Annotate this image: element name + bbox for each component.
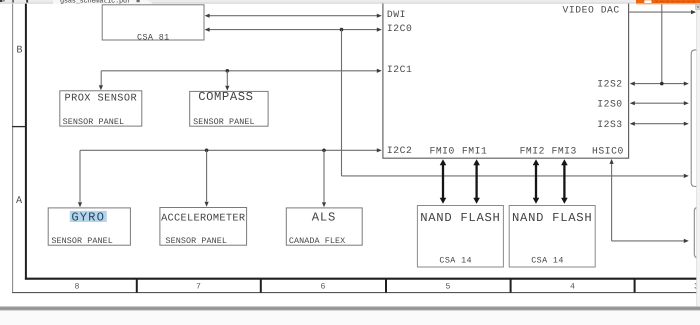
block ACCELEROMETER: [160, 208, 247, 246]
junction on I2C2 wire above ACCELEROMETER: [205, 149, 209, 153]
wire I2C0 branch vertical down: [341, 30, 343, 176]
wire I2C2 horizontal into SoC: [80, 149, 380, 151]
svg-text:I2S3: I2S3: [597, 119, 622, 130]
FMI0 bus double arrow: [442, 163, 444, 200]
svg-text:CSA 14: CSA 14: [531, 256, 564, 266]
svg-text:PROX SENSOR: PROX SENSOR: [65, 92, 138, 104]
FMI2 bus double arrow: [535, 163, 537, 200]
svg-text:HSIC0: HSIC0: [592, 145, 624, 156]
SoC main block U1 (cut off at top): [383, 0, 629, 158]
browser tab bar strip (cut off at top): [0, 0, 700, 3]
sheet frame bottom outer line: [12, 292, 700, 294]
FMI1 bus double arrow: [475, 163, 477, 200]
svg-text:FMI2: FMI2: [520, 145, 545, 156]
column dividers bottom margin: [136, 278, 138, 293]
block NAND FLASH 1: [417, 206, 503, 268]
orange tab strip top right: [636, 0, 700, 3]
svg-text:I2C1: I2C1: [387, 64, 412, 75]
svg-text:VIDEO DAC: VIDEO DAC: [563, 4, 620, 15]
svg-text:NAND FLASH: NAND FLASH: [512, 211, 592, 225]
block COMPASS: [190, 91, 268, 126]
wire I2C0 branch horizontal to right connector: [342, 175, 687, 177]
svg-text:8: 8: [75, 282, 80, 291]
wire I2C0 bus CSA81 to SoC (double arrow): [206, 29, 380, 31]
svg-text:SENSOR PANEL: SENSOR PANEL: [51, 236, 113, 246]
wire I2C1 horizontal into SoC: [101, 70, 380, 72]
wire I2C2 drop to ACCELEROMETER: [206, 150, 208, 201]
junction on I2C2 wire above ALS: [322, 149, 326, 153]
svg-text:ALS: ALS: [312, 211, 336, 225]
wire I2C2 drop to ALS: [323, 150, 325, 202]
sheet frame row divider tick: [12, 126, 26, 128]
wire I2C1 drop to COMPASS: [226, 71, 228, 86]
wire VIDEO DAC output to right: [629, 11, 693, 13]
partial toolbar marks top-left: [0, 0, 2, 2]
active tab (partial): [53, 0, 153, 4]
wire I2C1 drop to PROX SENSOR: [100, 71, 102, 85]
svg-text:COMPASS: COMPASS: [198, 90, 253, 104]
svg-text:SENSOR PANEL: SENSOR PANEL: [193, 117, 255, 127]
svg-text:gsas_schematic.pdf: gsas_schematic.pdf: [60, 0, 131, 5]
junction on I2C0 wire: [340, 28, 344, 32]
FMI3 bus double arrow: [563, 163, 565, 200]
wire I2S3 double arrow to right connector: [632, 123, 686, 125]
svg-text:SENSOR PANEL: SENSOR PANEL: [63, 117, 125, 127]
svg-text:I2C0: I2C0: [387, 23, 412, 34]
svg-text:GYRO: GYRO: [71, 210, 105, 224]
svg-text:I2S2: I2S2: [597, 79, 622, 90]
wire vertical into I2S2 from top: [661, 4, 663, 84]
svg-text:7: 7: [196, 282, 201, 291]
svg-text:B: B: [16, 46, 22, 57]
svg-text:I2C2: I2C2: [387, 145, 412, 156]
block NAND FLASH 2: [509, 206, 595, 268]
svg-text:CSA 14: CSA 14: [439, 256, 472, 266]
svg-text:ACCELEROMETER: ACCELEROMETER: [161, 213, 245, 225]
svg-text:CSA 81: CSA 81: [137, 32, 170, 42]
sheet border frame - outer left line: [12, 4, 14, 293]
svg-text:FMI3: FMI3: [551, 145, 576, 156]
wire I2S0 double arrow to right connector: [632, 102, 686, 104]
wire HSIC0 vertical down from SoC: [611, 162, 613, 241]
block GYRO (with selection highlight): [48, 208, 130, 245]
junction on I2S2 wire: [660, 82, 664, 86]
svg-text:DWI: DWI: [387, 9, 406, 20]
block ALS: [286, 208, 362, 245]
svg-text:FMI1: FMI1: [462, 145, 487, 156]
svg-text:FMI0: FMI0: [429, 145, 454, 156]
wire HSIC0 horizontal to right connector: [612, 240, 687, 242]
right connector box lower (cut off at right edge): [694, 207, 700, 257]
svg-text:A: A: [16, 196, 23, 207]
svg-text:I2S0: I2S0: [597, 98, 622, 109]
wire I2C2 drop to GYRO: [79, 150, 81, 202]
svg-text:5: 5: [446, 282, 451, 291]
junction on I2C1 wire above COMPASS: [226, 69, 230, 73]
sheet border frame - inner left thick line: [25, 4, 27, 280]
svg-text:NAND FLASH: NAND FLASH: [420, 211, 500, 225]
wire DWI bus CSA81 to SoC (double arrow): [206, 15, 380, 17]
svg-text:4: 4: [570, 282, 575, 291]
block PROX SENSOR: [60, 91, 142, 126]
svg-text:SENSOR PANEL: SENSOR PANEL: [166, 236, 228, 246]
partial close button of tab: [137, 0, 140, 2]
right connector box upper (cut off at right edge): [691, 50, 700, 187]
block CSA 81 (top-left box, cut off at top): [102, 5, 204, 40]
window scrollbar strip right edge: [697, 4, 700, 307]
wire I2S2 double arrow to right connector: [632, 83, 686, 85]
svg-text:6: 6: [321, 282, 326, 291]
sheet frame bottom thick line: [25, 278, 700, 280]
svg-text:CANADA FLEX: CANADA FLEX: [289, 236, 345, 246]
